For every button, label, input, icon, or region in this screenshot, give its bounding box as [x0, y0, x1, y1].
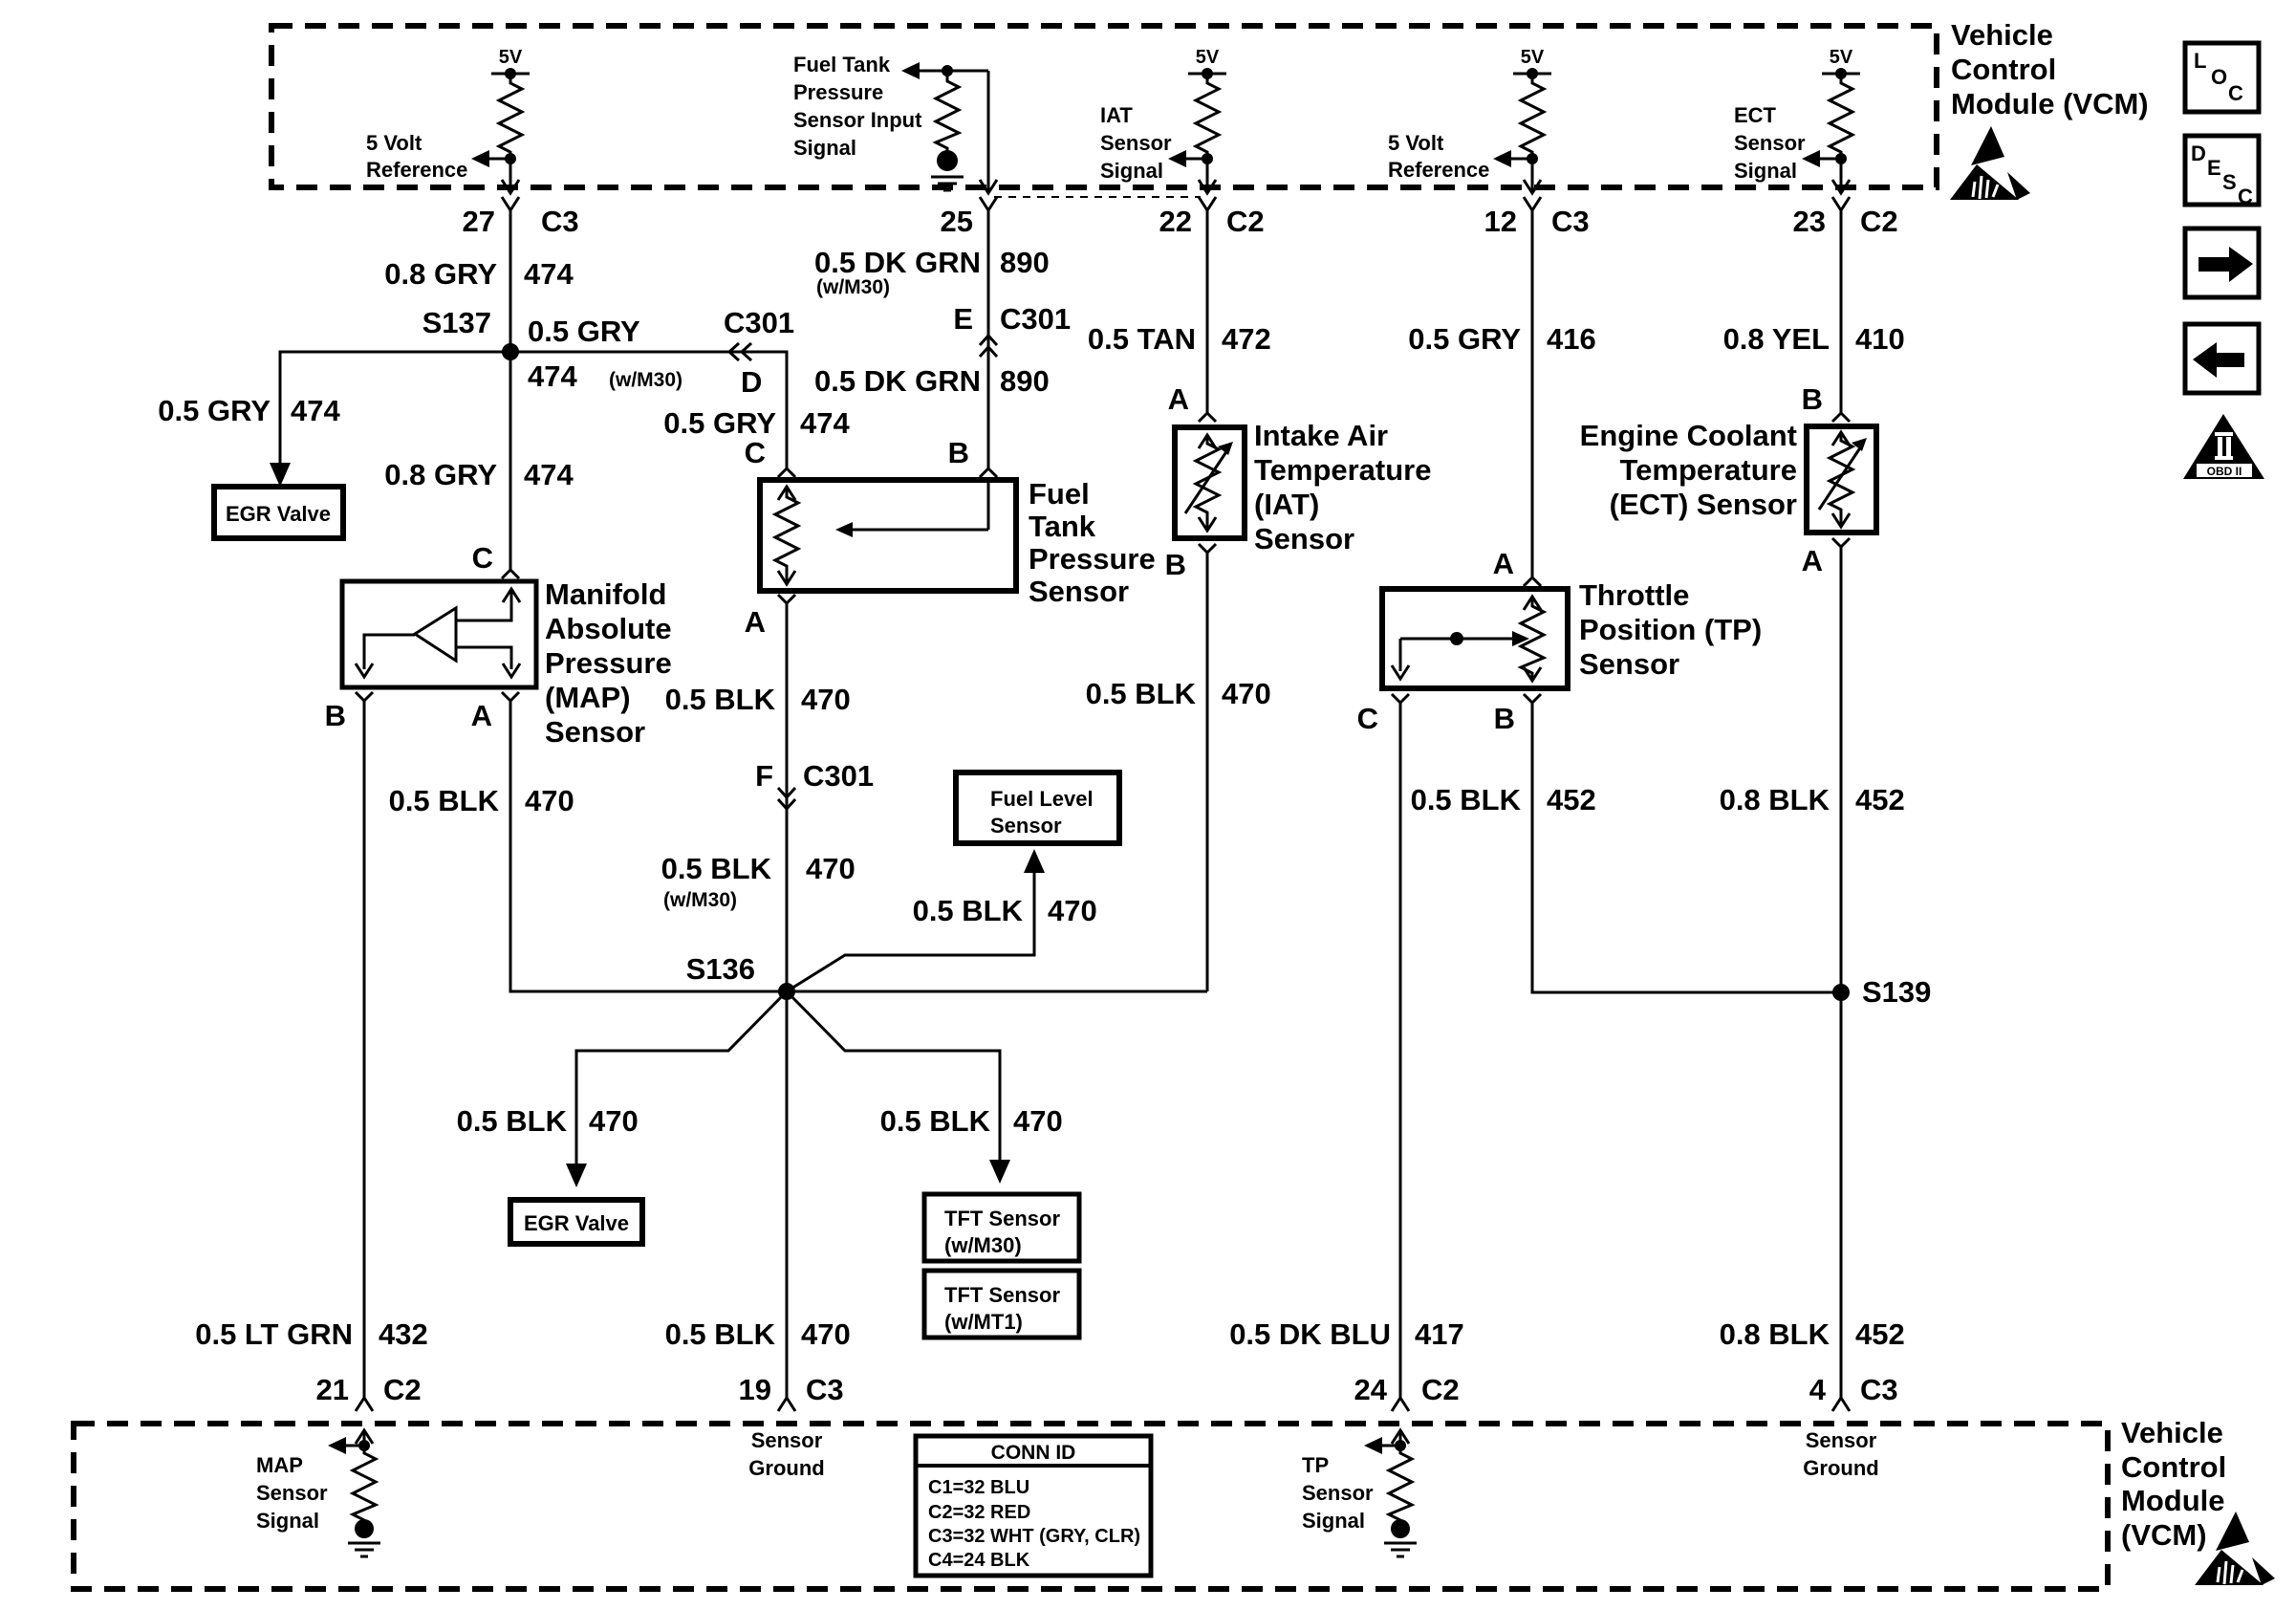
- thin dashed connector line: [994, 196, 1201, 198]
- terminal A TP: [1493, 547, 1541, 586]
- label 0.5 LT GRN 432: [195, 1317, 428, 1351]
- svg-text:(w/MT1): (w/MT1): [944, 1310, 1023, 1334]
- svg-text:Pressure: Pressure: [545, 646, 672, 680]
- svg-text:C301: C301: [803, 759, 874, 793]
- TFT Sensor box MT1: [924, 1271, 1079, 1338]
- svg-text:D: D: [741, 365, 762, 399]
- svg-text:470: 470: [801, 1317, 851, 1351]
- 5 Volt Reference arrow MAP: [471, 150, 516, 167]
- left arrow icon: [2185, 324, 2259, 393]
- svg-text:C: C: [472, 541, 493, 575]
- svg-text:IAT: IAT: [1100, 103, 1133, 127]
- svg-text:(w/M30): (w/M30): [816, 276, 890, 298]
- svg-text:A: A: [1802, 544, 1823, 577]
- svg-text:890: 890: [1000, 364, 1050, 398]
- svg-text:474: 474: [800, 406, 850, 440]
- svg-text:474: 474: [528, 359, 577, 393]
- splice S137: [422, 306, 519, 360]
- svg-text:0.5 BLK: 0.5 BLK: [913, 894, 1024, 927]
- svg-text:Temperature: Temperature: [1620, 453, 1798, 487]
- svg-text:(VCM): (VCM): [2121, 1518, 2207, 1552]
- label 0.8 YEL 410: [1723, 322, 1905, 356]
- MAP signal node and arrow: [328, 1437, 370, 1454]
- svg-text:B: B: [325, 699, 346, 732]
- svg-text:C: C: [745, 436, 766, 469]
- svg-text:C2=32 RED: C2=32 RED: [928, 1502, 1030, 1523]
- terminal C FTP: [745, 436, 795, 477]
- svg-text:L: L: [2194, 49, 2206, 73]
- label 0.5 DK GRN 890 lower: [814, 364, 1050, 398]
- svg-text:0.8 YEL: 0.8 YEL: [1723, 322, 1830, 356]
- TP internal wiper: [1392, 631, 1529, 679]
- wire 22 exit with arrow: [1199, 159, 1216, 193]
- svg-text:C: C: [2238, 185, 2253, 208]
- wire S136 to EGR valve lower: [566, 991, 787, 1187]
- connector Y pin 22: [1199, 197, 1216, 210]
- wire MAP A down to S136 line: [510, 701, 787, 991]
- wire 27 exit with arrow: [502, 159, 519, 193]
- pin 19 C3 label: [739, 1373, 844, 1406]
- svg-text:Sensor: Sensor: [1579, 647, 1679, 681]
- splice S139: [1832, 975, 1931, 1009]
- wire S136 down to pin 19: [786, 991, 789, 1398]
- svg-text:Control: Control: [2121, 1450, 2226, 1484]
- terminal B ECT: [1802, 382, 1850, 422]
- svg-text:(MAP): (MAP): [545, 681, 631, 714]
- VCM top label: [1951, 18, 2149, 120]
- terminal B FTP: [948, 436, 997, 477]
- TP signal node and arrow: [1364, 1437, 1406, 1454]
- terminal A ECT: [1802, 538, 1850, 577]
- svg-text:5V: 5V: [1196, 47, 1220, 68]
- arrow into EGR valve: [270, 463, 291, 487]
- svg-text:5V: 5V: [1521, 47, 1545, 68]
- svg-text:C2: C2: [1226, 205, 1265, 238]
- svg-text:0.5 BLK: 0.5 BLK: [661, 852, 772, 885]
- svg-text:S137: S137: [422, 306, 491, 339]
- connector Y pin 23: [1832, 197, 1850, 210]
- svg-text:Vehicle: Vehicle: [2121, 1416, 2223, 1449]
- wire 22 to IAT A: [1206, 210, 1209, 413]
- svg-text:C3: C3: [1860, 1373, 1898, 1406]
- svg-text:474: 474: [524, 257, 574, 291]
- svg-text:474: 474: [291, 394, 340, 427]
- FTP input arrow: [901, 62, 988, 79]
- svg-text:Sensor: Sensor: [990, 814, 1062, 838]
- svg-text:C2: C2: [1860, 205, 1898, 238]
- svg-text:Sensor: Sensor: [751, 1428, 823, 1452]
- resistor TP signal: [1389, 1446, 1412, 1522]
- OBD II icon: [2183, 414, 2264, 479]
- label 0.5 GRY 474 FTP C: [663, 406, 850, 440]
- svg-text:C: C: [2228, 81, 2243, 105]
- svg-text:Sensor: Sensor: [1302, 1481, 1374, 1505]
- svg-text:A: A: [745, 605, 766, 639]
- terminal C MAP: [472, 541, 519, 578]
- svg-text:0.5 DK GRN: 0.5 DK GRN: [814, 364, 981, 398]
- svg-text:C301: C301: [724, 306, 794, 339]
- resistor FTP pulldown: [936, 71, 959, 151]
- svg-text:25: 25: [941, 205, 973, 238]
- IAT Sensor Signal text: [1100, 103, 1172, 183]
- svg-text:(w/M30): (w/M30): [663, 889, 737, 911]
- svg-text:OBD II: OBD II: [2207, 465, 2242, 478]
- Fuel Tank Pressure Sensor box: [760, 480, 1016, 591]
- Sensor Ground text left: [748, 1428, 824, 1480]
- resistor VCM pullup IAT: [1196, 74, 1219, 159]
- svg-text:452: 452: [1855, 1317, 1905, 1351]
- svg-text:21: 21: [316, 1373, 349, 1406]
- svg-text:Throttle: Throttle: [1579, 578, 1689, 612]
- svg-text:0.5 BLK: 0.5 BLK: [457, 1104, 568, 1138]
- pin 25 label: [941, 205, 973, 238]
- svg-text:5V: 5V: [499, 47, 523, 68]
- label 0.5 GRY above: [528, 315, 640, 348]
- wire ECT A down to pin 4: [1840, 547, 1843, 1398]
- wire IAT B down to S136 line: [1206, 553, 1209, 991]
- label 0.5 BLK 470 TFT: [880, 1104, 1063, 1138]
- svg-text:Signal: Signal: [1302, 1509, 1365, 1533]
- svg-text:5 Volt: 5 Volt: [1388, 131, 1444, 155]
- svg-text:Fuel Tank: Fuel Tank: [793, 53, 891, 76]
- svg-text:Signal: Signal: [1100, 159, 1163, 183]
- wire 27/C3 to S137: [509, 210, 512, 352]
- MAP sensor name: [545, 577, 672, 749]
- TFT Sensor box M30: [924, 1194, 1079, 1261]
- svg-text:E: E: [953, 302, 973, 336]
- TP signal entry arrow: [1392, 1430, 1409, 1446]
- svg-text:E: E: [2207, 156, 2221, 180]
- Fuel Tank Pressure Sensor Input Signal text: [793, 53, 922, 160]
- svg-text:432: 432: [379, 1317, 428, 1351]
- svg-text:Fuel Level: Fuel Level: [990, 787, 1094, 811]
- connector Y pin 27: [502, 197, 519, 210]
- TP internal resistor: [1521, 597, 1544, 681]
- wire 12 to TP A: [1531, 210, 1534, 577]
- EGR Valve box lower: [510, 1200, 642, 1244]
- connector Y pin 24: [1392, 1398, 1409, 1411]
- MAP Sensor Signal text: [256, 1453, 328, 1533]
- 5V rail tick ECT: [1822, 68, 1860, 79]
- svg-text:B: B: [1802, 382, 1823, 416]
- connector Y pin 25: [980, 197, 997, 210]
- svg-text:470: 470: [801, 683, 851, 716]
- svg-text:470: 470: [589, 1104, 639, 1138]
- svg-text:0.5 BLK: 0.5 BLK: [1411, 783, 1522, 816]
- pin 22 C2 label: [1159, 205, 1265, 238]
- IAT thermistor: [1185, 435, 1233, 531]
- svg-text:Sensor: Sensor: [256, 1481, 328, 1505]
- svg-text:MAP: MAP: [256, 1453, 303, 1477]
- svg-text:S136: S136: [686, 952, 755, 986]
- ground FTP pulldown: [931, 150, 964, 190]
- IAT sensor name: [1254, 419, 1432, 555]
- label 0.5 BLK 470 EGR lower: [457, 1104, 639, 1138]
- svg-text:TP: TP: [1302, 1453, 1329, 1477]
- svg-text:(w/M30): (w/M30): [944, 1233, 1022, 1257]
- svg-text:19: 19: [739, 1373, 771, 1406]
- ECT sensor name: [1580, 419, 1797, 521]
- wire 23 exit with arrow: [1832, 159, 1850, 193]
- svg-text:EGR Valve: EGR Valve: [524, 1211, 629, 1235]
- label 0.5 BLK 470 FTP A: [665, 683, 851, 716]
- pin 12 C3 label: [1484, 205, 1590, 238]
- terminal A MAP: [471, 692, 519, 732]
- svg-text:C4=24 BLK: C4=24 BLK: [928, 1550, 1030, 1571]
- svg-text:Engine Coolant: Engine Coolant: [1580, 419, 1797, 452]
- svg-text:890: 890: [1000, 246, 1050, 279]
- svg-text:0.5 LT GRN: 0.5 LT GRN: [195, 1317, 353, 1351]
- ESD symbol bottom: [2195, 1512, 2275, 1585]
- svg-text:23: 23: [1793, 205, 1826, 238]
- svg-text:452: 452: [1855, 783, 1905, 816]
- connector C301 E chevrons: [953, 302, 1071, 357]
- label 0.5 DK BLU 417: [1229, 1317, 1464, 1351]
- svg-text:0.5 BLK: 0.5 BLK: [665, 1317, 776, 1351]
- resistor MAP signal: [353, 1446, 376, 1522]
- svg-text:0.8 BLK: 0.8 BLK: [1720, 1317, 1830, 1351]
- svg-text:24: 24: [1354, 1373, 1388, 1406]
- svg-text:EGR Valve: EGR Valve: [226, 502, 331, 526]
- resistor VCM 5V pullup MAP: [499, 74, 522, 159]
- 5V label IAT: [1196, 47, 1220, 68]
- svg-text:CONN ID: CONN ID: [991, 1442, 1076, 1464]
- VCM bottom dashed box: [74, 1424, 2108, 1589]
- connector Y pin 12: [1524, 197, 1541, 210]
- svg-text:Vehicle: Vehicle: [1951, 18, 2053, 52]
- label 0.5 GRY 416: [1408, 322, 1595, 356]
- ECT Sensor Signal text: [1734, 103, 1806, 183]
- ground MAP signal: [348, 1519, 380, 1556]
- ESD symbol top: [1950, 126, 2030, 200]
- svg-text:Control: Control: [1951, 53, 2056, 86]
- Fuel Level Sensor box: [956, 772, 1119, 843]
- svg-text:470: 470: [1222, 677, 1271, 710]
- svg-text:Intake Air: Intake Air: [1254, 419, 1388, 452]
- svg-text:0.5 BLK: 0.5 BLK: [389, 784, 500, 817]
- svg-text:12: 12: [1484, 205, 1517, 238]
- pin 4 C3 label: [1809, 1373, 1898, 1406]
- svg-text:(IAT): (IAT): [1254, 488, 1319, 521]
- svg-text:0.5 DK GRN: 0.5 DK GRN: [814, 246, 981, 279]
- splice S136: [686, 952, 795, 1000]
- FTP input node dot: [942, 65, 953, 76]
- svg-text:470: 470: [806, 852, 856, 885]
- ECT sensor box: [1807, 426, 1876, 533]
- svg-text:A: A: [1493, 547, 1514, 580]
- pin 23 C2 label: [1793, 205, 1898, 238]
- svg-text:C3=32 WHT (GRY, CLR): C3=32 WHT (GRY, CLR): [928, 1526, 1140, 1547]
- svg-text:Temperature: Temperature: [1254, 453, 1432, 487]
- svg-text:5 Volt: 5 Volt: [366, 131, 422, 155]
- svg-text:Position (TP): Position (TP): [1579, 613, 1762, 646]
- svg-text:ECT: ECT: [1734, 103, 1777, 127]
- CONN ID table: [916, 1436, 1151, 1576]
- svg-text:452: 452: [1547, 783, 1596, 816]
- pin 27 C3 label: [463, 205, 579, 238]
- 5V rail tick MAP: [491, 68, 530, 79]
- label 0.5 BLK 470 fuel level: [913, 894, 1097, 927]
- svg-text:0.5 TAN: 0.5 TAN: [1088, 322, 1196, 356]
- svg-text:S: S: [2222, 170, 2237, 194]
- wire TP B down to S139 line: [1532, 703, 1841, 992]
- svg-text:Signal: Signal: [1734, 159, 1797, 183]
- svg-text:C1=32 BLU: C1=32 BLU: [928, 1477, 1029, 1498]
- connector C301 D chevrons: [729, 343, 751, 360]
- svg-text:Sensor: Sensor: [545, 715, 645, 749]
- label 0.8 BLK 452 lower: [1720, 1317, 1905, 1351]
- svg-text:Module (VCM): Module (VCM): [1951, 87, 2149, 120]
- label 0.5 BLK 470 MAP A: [389, 784, 574, 817]
- svg-text:(w/M30): (w/M30): [609, 369, 682, 391]
- svg-text:470: 470: [525, 784, 574, 817]
- Sensor Ground text right: [1803, 1428, 1878, 1480]
- label 0.5 GRY 474 EGR branch: [158, 394, 340, 427]
- connector Y pin 21: [356, 1398, 373, 1411]
- 5V label ECT: [1830, 47, 1853, 68]
- terminal C TP: [1357, 694, 1409, 735]
- 5V label TP: [1521, 47, 1545, 68]
- svg-text:A: A: [471, 699, 492, 732]
- svg-text:Absolute: Absolute: [545, 612, 672, 645]
- label 0.8 GRY 474 upper: [384, 257, 574, 291]
- svg-text:C: C: [1357, 702, 1378, 735]
- svg-text:27: 27: [463, 205, 495, 238]
- label 0.5 TAN 472: [1088, 322, 1271, 356]
- label 0.5 BLK 470 IAT: [1086, 677, 1271, 710]
- svg-text:A: A: [1168, 382, 1189, 416]
- right arrow icon: [2185, 228, 2259, 297]
- S136 horizontal wire: [510, 990, 1207, 993]
- wire 25 to FTP B: [987, 210, 990, 468]
- EGR Valve box: [214, 487, 343, 538]
- svg-text:S139: S139: [1862, 975, 1931, 1009]
- wire TP C down to pin 24: [1399, 703, 1402, 1398]
- svg-text:TFT Sensor: TFT Sensor: [944, 1283, 1060, 1307]
- TP sensor name: [1579, 578, 1762, 681]
- svg-text:470: 470: [1048, 894, 1097, 927]
- svg-text:C2: C2: [1421, 1373, 1460, 1406]
- IAT sensor box: [1175, 427, 1245, 538]
- terminal A IAT: [1168, 382, 1216, 422]
- 5 Volt Reference text TP: [1388, 131, 1489, 182]
- ground TP signal: [1384, 1519, 1417, 1556]
- svg-text:F: F: [755, 759, 773, 793]
- pin 21 C2 label: [316, 1373, 422, 1406]
- svg-text:0.5 GRY: 0.5 GRY: [663, 406, 776, 440]
- svg-text:0.5 GRY: 0.5 GRY: [528, 315, 640, 348]
- pin 24 C2 label: [1354, 1373, 1460, 1406]
- 5 Volt Reference arrow TP: [1493, 150, 1538, 167]
- FTP internal resistor: [775, 487, 798, 584]
- svg-text:Reference: Reference: [1388, 158, 1489, 182]
- wire 23 to ECT B: [1840, 210, 1843, 413]
- wire MAP B down to pin 21: [363, 701, 366, 1398]
- svg-text:B: B: [1494, 702, 1515, 735]
- svg-text:B: B: [1165, 548, 1186, 581]
- connector Y pin 19: [778, 1398, 795, 1411]
- svg-text:0.5 GRY: 0.5 GRY: [1408, 322, 1521, 356]
- svg-text:22: 22: [1159, 205, 1192, 238]
- svg-text:4: 4: [1809, 1373, 1827, 1406]
- svg-text:0.8 GRY: 0.8 GRY: [384, 257, 497, 291]
- svg-text:0.8 BLK: 0.8 BLK: [1720, 783, 1830, 816]
- svg-text:Ground: Ground: [1803, 1456, 1878, 1480]
- LOC icon: [2185, 43, 2259, 112]
- Fuel Tank Pressure Sensor name: [1029, 477, 1156, 608]
- svg-text:Sensor: Sensor: [1806, 1428, 1877, 1452]
- svg-text:Sensor: Sensor: [1029, 575, 1129, 608]
- svg-text:474: 474: [524, 458, 574, 491]
- terminal A FTP: [745, 595, 795, 639]
- svg-text:C2: C2: [383, 1373, 422, 1406]
- svg-text:Fuel: Fuel: [1029, 477, 1090, 511]
- svg-text:O: O: [2211, 65, 2227, 89]
- svg-text:Pressure: Pressure: [793, 80, 883, 104]
- svg-text:C3: C3: [1551, 205, 1590, 238]
- svg-text:0.8 GRY: 0.8 GRY: [384, 458, 497, 491]
- wire 25 exit with arrow: [980, 71, 997, 193]
- svg-text:Tank: Tank: [1029, 510, 1096, 543]
- svg-text:Sensor Input: Sensor Input: [793, 108, 922, 132]
- svg-text:Sensor: Sensor: [1254, 522, 1354, 555]
- svg-text:0.5 DK BLU: 0.5 DK BLU: [1229, 1317, 1391, 1351]
- resistor VCM pullup ECT: [1830, 74, 1852, 159]
- terminal B MAP: [325, 692, 373, 732]
- label 0.5 BLK (w/M30) 470 above S136: [661, 852, 856, 911]
- svg-text:416: 416: [1547, 322, 1596, 356]
- label 0.5 BLK 470 pin19: [665, 1317, 851, 1351]
- svg-text:C301: C301: [1000, 302, 1071, 336]
- svg-text:Module: Module: [2121, 1484, 2225, 1517]
- ECT thermistor: [1819, 432, 1867, 527]
- resistor VCM 5V pullup TP: [1521, 74, 1544, 159]
- svg-text:Pressure: Pressure: [1029, 542, 1156, 576]
- 5V rail tick IAT: [1188, 68, 1226, 79]
- DESC icon: [2185, 136, 2259, 208]
- svg-text:B: B: [948, 436, 969, 469]
- 5 Volt Reference text MAP: [366, 131, 467, 182]
- ECT signal arrow: [1802, 150, 1847, 167]
- svg-text:0.5 BLK: 0.5 BLK: [665, 683, 776, 716]
- svg-text:Sensor: Sensor: [1734, 131, 1806, 155]
- label 0.8 GRY 474 lower: [384, 458, 574, 491]
- VCM top dashed box: [271, 26, 1937, 187]
- svg-text:0.5 BLK: 0.5 BLK: [1086, 677, 1197, 710]
- svg-text:D: D: [2191, 141, 2206, 165]
- wire 12 exit with arrow: [1524, 159, 1541, 193]
- svg-text:C3: C3: [541, 205, 579, 238]
- TP Sensor Signal text: [1302, 1453, 1374, 1533]
- 5V rail tick TP: [1513, 68, 1551, 79]
- svg-text:Reference: Reference: [366, 158, 467, 182]
- label C301 D: [724, 306, 794, 399]
- wire S136 to TFT sensor: [787, 991, 1010, 1184]
- IAT signal arrow: [1168, 150, 1213, 167]
- Throttle Position sensor box: [1382, 589, 1568, 688]
- terminal B IAT: [1165, 544, 1216, 581]
- svg-text:410: 410: [1855, 322, 1905, 356]
- MAP signal entry arrow: [356, 1430, 373, 1446]
- svg-text:Signal: Signal: [793, 136, 856, 160]
- label 0.8 BLK 452 mid: [1720, 783, 1905, 816]
- wire S137 to MAP C: [509, 352, 512, 570]
- VCM bottom label: [2121, 1416, 2226, 1552]
- wire FTP A to S136: [786, 603, 789, 991]
- 5V label MAP ref: [499, 47, 523, 68]
- svg-text:C3: C3: [806, 1373, 844, 1406]
- svg-text:472: 472: [1222, 322, 1271, 356]
